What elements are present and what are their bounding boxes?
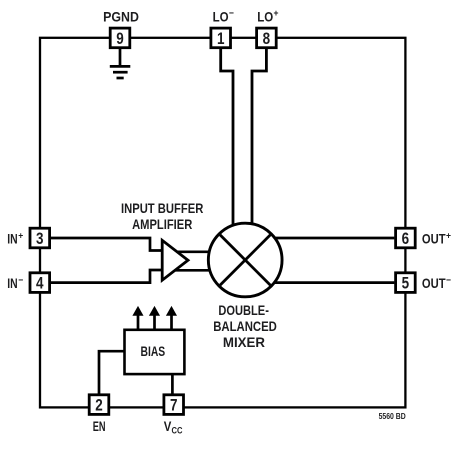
svg-text:3: 3 <box>36 230 44 248</box>
svg-text:BIAS: BIAS <box>141 343 166 359</box>
svg-text:AMPLIFIER: AMPLIFIER <box>132 216 192 232</box>
svg-text:INPUT BUFFER: INPUT BUFFER <box>121 200 203 216</box>
svg-text:4: 4 <box>36 275 44 293</box>
svg-text:+: + <box>446 230 451 241</box>
svg-text:IN: IN <box>7 275 17 291</box>
svg-text:IN: IN <box>7 230 17 246</box>
svg-text:8: 8 <box>263 30 271 48</box>
svg-text:1: 1 <box>217 30 225 48</box>
svg-text:5: 5 <box>402 275 410 293</box>
svg-text:MIXER: MIXER <box>223 334 265 350</box>
svg-text:−: − <box>446 275 451 286</box>
svg-text:−: − <box>229 8 234 19</box>
svg-text:BALANCED: BALANCED <box>213 318 277 334</box>
svg-text:OUT: OUT <box>422 230 446 246</box>
svg-text:OUT: OUT <box>422 275 446 291</box>
svg-text:9: 9 <box>116 30 124 48</box>
svg-text:+: + <box>18 230 23 241</box>
svg-text:EN: EN <box>93 418 106 434</box>
svg-text:LO: LO <box>213 9 229 25</box>
svg-text:DOUBLE-: DOUBLE- <box>218 302 269 318</box>
svg-text:5560 BD: 5560 BD <box>379 412 406 421</box>
svg-text:7: 7 <box>170 397 178 415</box>
svg-text:2: 2 <box>95 397 103 415</box>
svg-text:+: + <box>274 8 279 19</box>
svg-text:LO: LO <box>257 9 273 25</box>
svg-text:CC: CC <box>172 426 183 437</box>
svg-text:PGND: PGND <box>103 9 139 25</box>
svg-text:−: − <box>18 275 23 286</box>
svg-text:6: 6 <box>402 230 410 248</box>
